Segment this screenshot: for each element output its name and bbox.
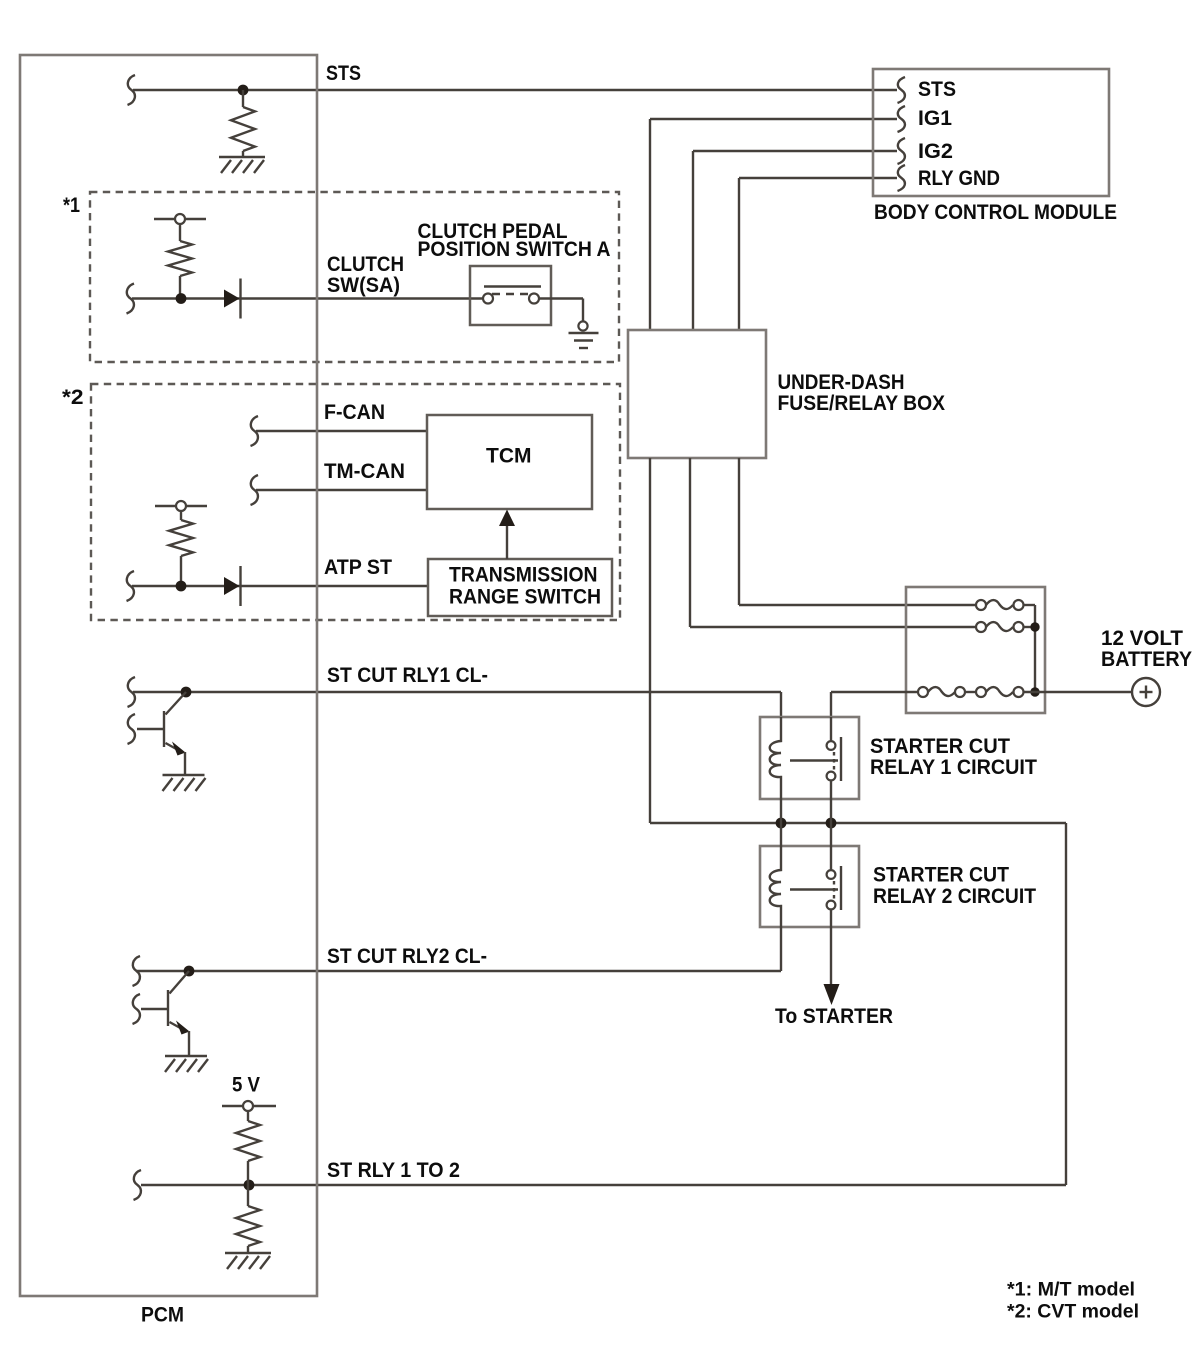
svg-text:RELAY 2 CIRCUIT: RELAY 2 CIRCUIT [873, 885, 1036, 908]
svg-text:UNDER-DASH: UNDER-DASH [778, 371, 905, 394]
svg-text:SW(SA): SW(SA) [327, 274, 400, 297]
svg-text:PCM: PCM [141, 1304, 184, 1327]
svg-text:FUSE/RELAY BOX: FUSE/RELAY BOX [778, 392, 946, 415]
svg-text:ST CUT RLY2 CL-: ST CUT RLY2 CL- [327, 945, 487, 968]
svg-text:ST RLY 1 TO 2: ST RLY 1 TO 2 [327, 1159, 460, 1182]
svg-text:12 VOLT: 12 VOLT [1101, 627, 1183, 650]
svg-text:TCM: TCM [486, 445, 532, 468]
svg-text:POSITION SWITCH A: POSITION SWITCH A [418, 238, 611, 261]
svg-text:5 V: 5 V [232, 1074, 260, 1097]
svg-text:To STARTER: To STARTER [775, 1005, 893, 1028]
svg-text:STS: STS [326, 62, 361, 85]
svg-text:RELAY 1 CIRCUIT: RELAY 1 CIRCUIT [870, 756, 1037, 779]
svg-text:TM-CAN: TM-CAN [324, 460, 405, 483]
svg-text:STARTER CUT: STARTER CUT [873, 864, 1009, 887]
svg-text:ATP ST: ATP ST [324, 556, 392, 579]
svg-text:BATTERY: BATTERY [1101, 648, 1192, 671]
svg-text:BODY CONTROL MODULE: BODY CONTROL MODULE [874, 201, 1117, 224]
svg-text:*1: *1 [63, 194, 80, 217]
svg-text:*2: CVT model: *2: CVT model [1007, 1302, 1139, 1323]
svg-text:ST CUT RLY1 CL-: ST CUT RLY1 CL- [327, 664, 488, 687]
svg-text:IG2: IG2 [918, 140, 953, 163]
svg-text:F-CAN: F-CAN [324, 401, 385, 424]
svg-text:IG1: IG1 [918, 107, 952, 130]
svg-text:RANGE SWITCH: RANGE SWITCH [449, 586, 601, 609]
svg-text:RLY GND: RLY GND [918, 167, 1000, 190]
svg-text:STS: STS [918, 78, 956, 101]
svg-text:CLUTCH: CLUTCH [327, 253, 404, 276]
svg-text:STARTER CUT: STARTER CUT [870, 735, 1010, 758]
svg-text:*1: M/T model: *1: M/T model [1007, 1280, 1135, 1301]
svg-text:*2: *2 [62, 386, 84, 409]
svg-text:TRANSMISSION: TRANSMISSION [449, 564, 598, 587]
